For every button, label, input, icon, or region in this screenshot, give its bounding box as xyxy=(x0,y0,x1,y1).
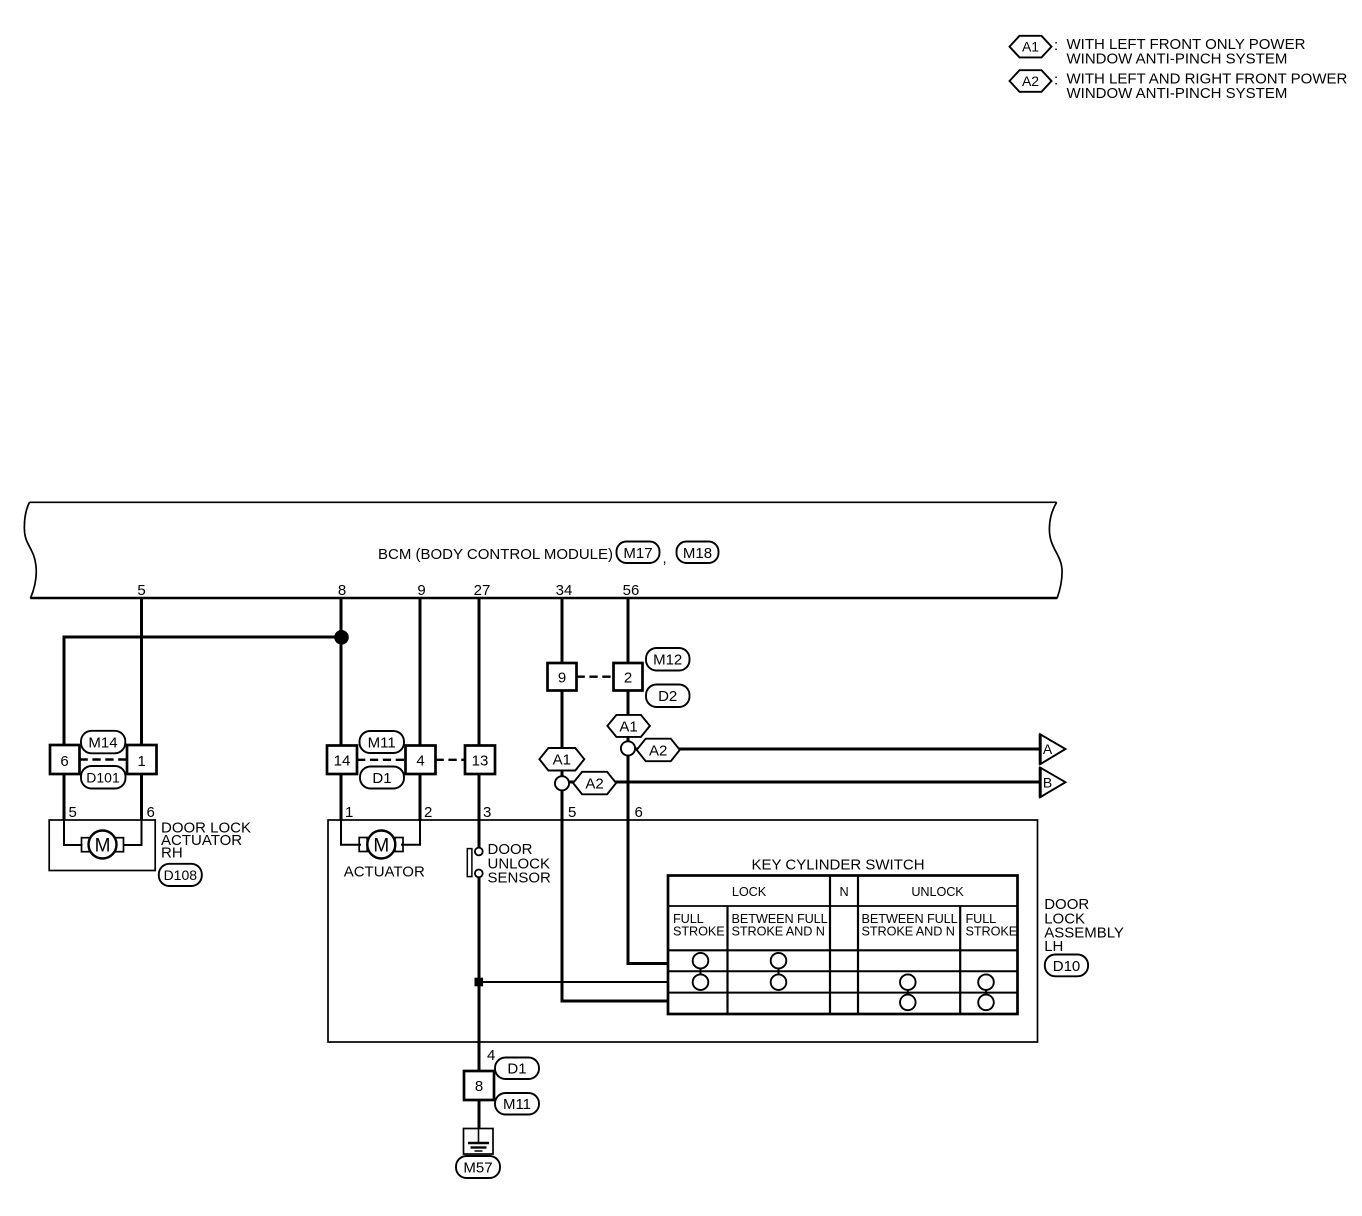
svg-text:M12: M12 xyxy=(653,652,682,669)
branch circle on pin 34 wire xyxy=(555,776,569,790)
wire from branch circle down into table row A xyxy=(628,755,668,963)
badge M57 ground name xyxy=(456,1156,500,1178)
wire from connector 9 down to branch circle xyxy=(561,691,564,777)
svg-text:A1: A1 xyxy=(1022,39,1039,55)
connector terminal 2 (M12/D2) xyxy=(614,663,643,691)
wire left drop down to connector M14-6 xyxy=(63,636,66,746)
connector terminal 9 (M12/D2) xyxy=(548,663,577,691)
svg-text:LH: LH xyxy=(1044,938,1063,955)
badge D1 xyxy=(360,767,404,789)
badge D101 xyxy=(81,766,126,789)
svg-text:5: 5 xyxy=(137,582,145,599)
wire from connector 2 down to branch circle xyxy=(627,691,630,742)
door unlock sensor contact bar xyxy=(467,849,472,877)
option hexagon A1 on pin 56 wire xyxy=(607,715,650,737)
svg-text:D1: D1 xyxy=(507,1061,526,1078)
svg-text:STROKE AND N: STROKE AND N xyxy=(732,925,825,939)
badge M11 bottom xyxy=(495,1093,539,1115)
ground symbol box xyxy=(464,1129,494,1155)
option hexagon A2 on wire A xyxy=(637,739,680,762)
table row B/C divider xyxy=(668,992,1018,994)
wire to motor RH right xyxy=(123,820,142,845)
svg-text::: : xyxy=(1054,72,1058,89)
wire branch horizontal from node at pin 8 wire to left drop xyxy=(63,636,343,639)
svg-text:D108: D108 xyxy=(164,867,198,883)
table row A/B divider xyxy=(668,970,1018,972)
svg-text:M11: M11 xyxy=(368,735,396,752)
svg-text:4: 4 xyxy=(416,753,424,770)
contact circle col5 row C xyxy=(978,995,994,1011)
svg-text:STROKE: STROKE xyxy=(966,925,1018,939)
wire from pin 8 down to connector M11-14 xyxy=(340,598,343,745)
door lock assembly LH box xyxy=(328,820,1038,1042)
option hexagon A1 on pin 34 wire xyxy=(539,748,584,771)
svg-text:14: 14 xyxy=(334,753,351,770)
wire from branch circle down into table row C xyxy=(562,790,668,1001)
connector terminal 13 xyxy=(465,746,495,775)
svg-text:8: 8 xyxy=(338,582,346,599)
contact link col5 xyxy=(985,982,987,1002)
svg-text:A: A xyxy=(1043,741,1053,757)
junction dot on pin 8 wire xyxy=(334,630,349,645)
svg-text:B: B xyxy=(1043,774,1052,790)
connector terminal 8 (D1/M11) xyxy=(464,1071,494,1100)
svg-text:D2: D2 xyxy=(658,688,677,705)
wire from connector D1-4 down into assembly box xyxy=(419,774,422,821)
svg-text:BCM (BODY CONTROL MODULE): BCM (BODY CONTROL MODULE) xyxy=(378,546,613,563)
svg-text:SENSOR: SENSOR xyxy=(488,870,552,887)
svg-text:A2: A2 xyxy=(649,742,667,759)
wire from pin 9 down to connector M11-4 xyxy=(419,598,422,745)
svg-text:M14: M14 xyxy=(88,735,117,752)
svg-text:A2: A2 xyxy=(585,775,603,792)
connector terminal 6 (M14/D101) xyxy=(50,745,80,774)
svg-text:M: M xyxy=(95,835,111,856)
svg-text:2: 2 xyxy=(424,804,432,821)
arrow terminal B xyxy=(1040,768,1065,798)
contact circle col5 row B xyxy=(978,974,994,990)
svg-text:WINDOW ANTI-PINCH SYSTEM: WINDOW ANTI-PINCH SYSTEM xyxy=(1067,51,1288,68)
door lock actuator RH box xyxy=(49,820,155,871)
svg-text:4: 4 xyxy=(487,1047,495,1064)
badge M17 xyxy=(617,542,660,564)
wire from connector 13 down to door unlock sensor xyxy=(478,774,481,848)
wire from connector D101-1 down into actuator RH box xyxy=(140,774,143,821)
svg-text:,: , xyxy=(663,550,667,567)
wire B horizontal to arrow B xyxy=(568,781,1041,784)
wire A horizontal to arrow A xyxy=(633,748,1041,751)
svg-text:3: 3 xyxy=(483,804,491,821)
svg-text:WINDOW ANTI-PINCH SYSTEM: WINDOW ANTI-PINCH SYSTEM xyxy=(1067,85,1288,102)
svg-text::: : xyxy=(1054,37,1058,54)
svg-text:5: 5 xyxy=(568,804,576,821)
table column line N/unlock xyxy=(857,876,859,1015)
legend option hexagon A2 xyxy=(1010,70,1052,92)
badge D2 xyxy=(646,685,690,708)
svg-text:6: 6 xyxy=(60,753,68,770)
contact circle col4 row C xyxy=(900,995,916,1011)
svg-text:M: M xyxy=(373,835,389,856)
svg-text:1: 1 xyxy=(138,753,146,770)
svg-text:STROKE: STROKE xyxy=(673,925,725,939)
svg-text:A2: A2 xyxy=(1022,73,1039,89)
svg-text:A1: A1 xyxy=(553,752,571,769)
badge D10 xyxy=(1045,955,1088,977)
motor M symbol RH xyxy=(89,831,117,859)
svg-text:M17: M17 xyxy=(623,545,652,562)
connector terminal 1 (M14/D101) xyxy=(127,745,157,774)
wire from connector D1-14 down into assembly box xyxy=(340,774,343,821)
ground symbol stem xyxy=(478,1129,480,1143)
motor LH brush right xyxy=(395,838,403,852)
wire from pin 27 down to connector 13 xyxy=(478,598,481,745)
svg-text:M18: M18 xyxy=(683,545,712,562)
connector terminal 14 (M11/D1) xyxy=(327,746,357,775)
svg-text:8: 8 xyxy=(475,1078,483,1095)
ground symbol bar 2 xyxy=(471,1146,487,1148)
badge M14 xyxy=(81,731,125,754)
badge M11 xyxy=(360,731,405,753)
badge M12 xyxy=(646,648,690,671)
svg-text:D1: D1 xyxy=(372,770,391,787)
svg-text:9: 9 xyxy=(417,582,425,599)
wire from connector 8 to ground xyxy=(478,1100,481,1129)
svg-text:13: 13 xyxy=(472,753,489,770)
ground symbol bar 1 xyxy=(468,1142,489,1145)
svg-text:9: 9 xyxy=(558,670,566,687)
badge D1 bottom xyxy=(495,1058,539,1080)
contact link col1 xyxy=(700,961,702,983)
key cylinder switch table frame xyxy=(668,876,1018,1015)
wire to motor RH left xyxy=(64,820,83,845)
legend option hexagon A1 xyxy=(1010,36,1052,58)
svg-text:56: 56 xyxy=(623,582,640,599)
svg-text:LOCK: LOCK xyxy=(732,885,767,899)
dashed connector link M14-D101 xyxy=(80,758,128,760)
wire to motor LH right xyxy=(401,820,420,845)
contact circle col2 row B xyxy=(771,974,787,990)
dashed connector link 9-2 xyxy=(577,676,614,678)
svg-text:5: 5 xyxy=(69,804,77,821)
contact circle col4 row B xyxy=(900,974,916,990)
svg-text:ACTUATOR: ACTUATOR xyxy=(344,863,425,880)
svg-text:N: N xyxy=(839,885,848,899)
svg-text:6: 6 xyxy=(635,804,643,821)
svg-text:6: 6 xyxy=(147,804,155,821)
door unlock sensor terminal circle top xyxy=(475,848,483,856)
table column line lock/N xyxy=(829,876,831,1015)
svg-text:D101: D101 xyxy=(86,770,120,786)
contact circle col1 row A xyxy=(693,953,709,969)
option hexagon A2 on wire B xyxy=(573,772,616,795)
table column line col4/col5 xyxy=(959,906,961,1014)
motor RH brush left xyxy=(82,838,90,852)
dashed connector link 14-4 xyxy=(357,759,406,761)
table header2 divider line xyxy=(668,949,1018,951)
connector terminal 4 (M11/D1) xyxy=(406,746,436,775)
wire from pin 56 down to connector 2 xyxy=(627,598,630,663)
svg-text:27: 27 xyxy=(474,582,491,599)
motor LH brush left xyxy=(359,838,367,852)
junction square on sensor wire xyxy=(475,978,484,987)
wire from pin 34 down to connector 9 xyxy=(561,598,564,663)
svg-text:2: 2 xyxy=(624,670,632,687)
wire to motor LH left xyxy=(341,820,361,845)
svg-text:A1: A1 xyxy=(619,718,637,735)
dashed connector link 4-13 xyxy=(436,759,466,761)
BCM (Body Control Module) band outline xyxy=(24,502,36,598)
table column line col1/col2 xyxy=(726,906,728,1014)
svg-text:KEY CYLINDER SWITCH: KEY CYLINDER SWITCH xyxy=(751,857,924,874)
badge D108 xyxy=(159,864,202,886)
motor M symbol LH xyxy=(367,831,395,859)
svg-text:D10: D10 xyxy=(1053,958,1081,975)
door unlock sensor terminal circle bottom xyxy=(475,870,483,878)
wire branch from sensor junction to table row B xyxy=(480,981,668,983)
arrow terminal A xyxy=(1040,734,1065,764)
contact link col2 xyxy=(778,961,780,983)
motor RH brush right xyxy=(116,838,124,852)
wire from pin 5 down to connector M14-1 xyxy=(140,598,143,745)
contact circle col2 row A xyxy=(771,953,787,969)
branch circle on pin 56 wire xyxy=(621,741,635,755)
badge M18 xyxy=(677,542,719,564)
table header divider line xyxy=(668,905,1018,907)
ground symbol bar 3 xyxy=(475,1150,483,1152)
svg-text:RH: RH xyxy=(161,845,183,862)
contact link col4 xyxy=(907,982,909,1002)
svg-text:STROKE AND N: STROKE AND N xyxy=(862,925,955,939)
wire from door unlock sensor down to connector D1-8 xyxy=(478,878,481,1071)
svg-text:UNLOCK: UNLOCK xyxy=(911,885,964,899)
wire from connector D101-6 down into actuator RH box xyxy=(63,774,66,821)
svg-text:M57: M57 xyxy=(463,1160,492,1177)
svg-text:M11: M11 xyxy=(503,1096,531,1113)
svg-text:1: 1 xyxy=(345,804,353,821)
contact circle col1 row B xyxy=(693,974,709,990)
svg-text:34: 34 xyxy=(556,582,573,599)
